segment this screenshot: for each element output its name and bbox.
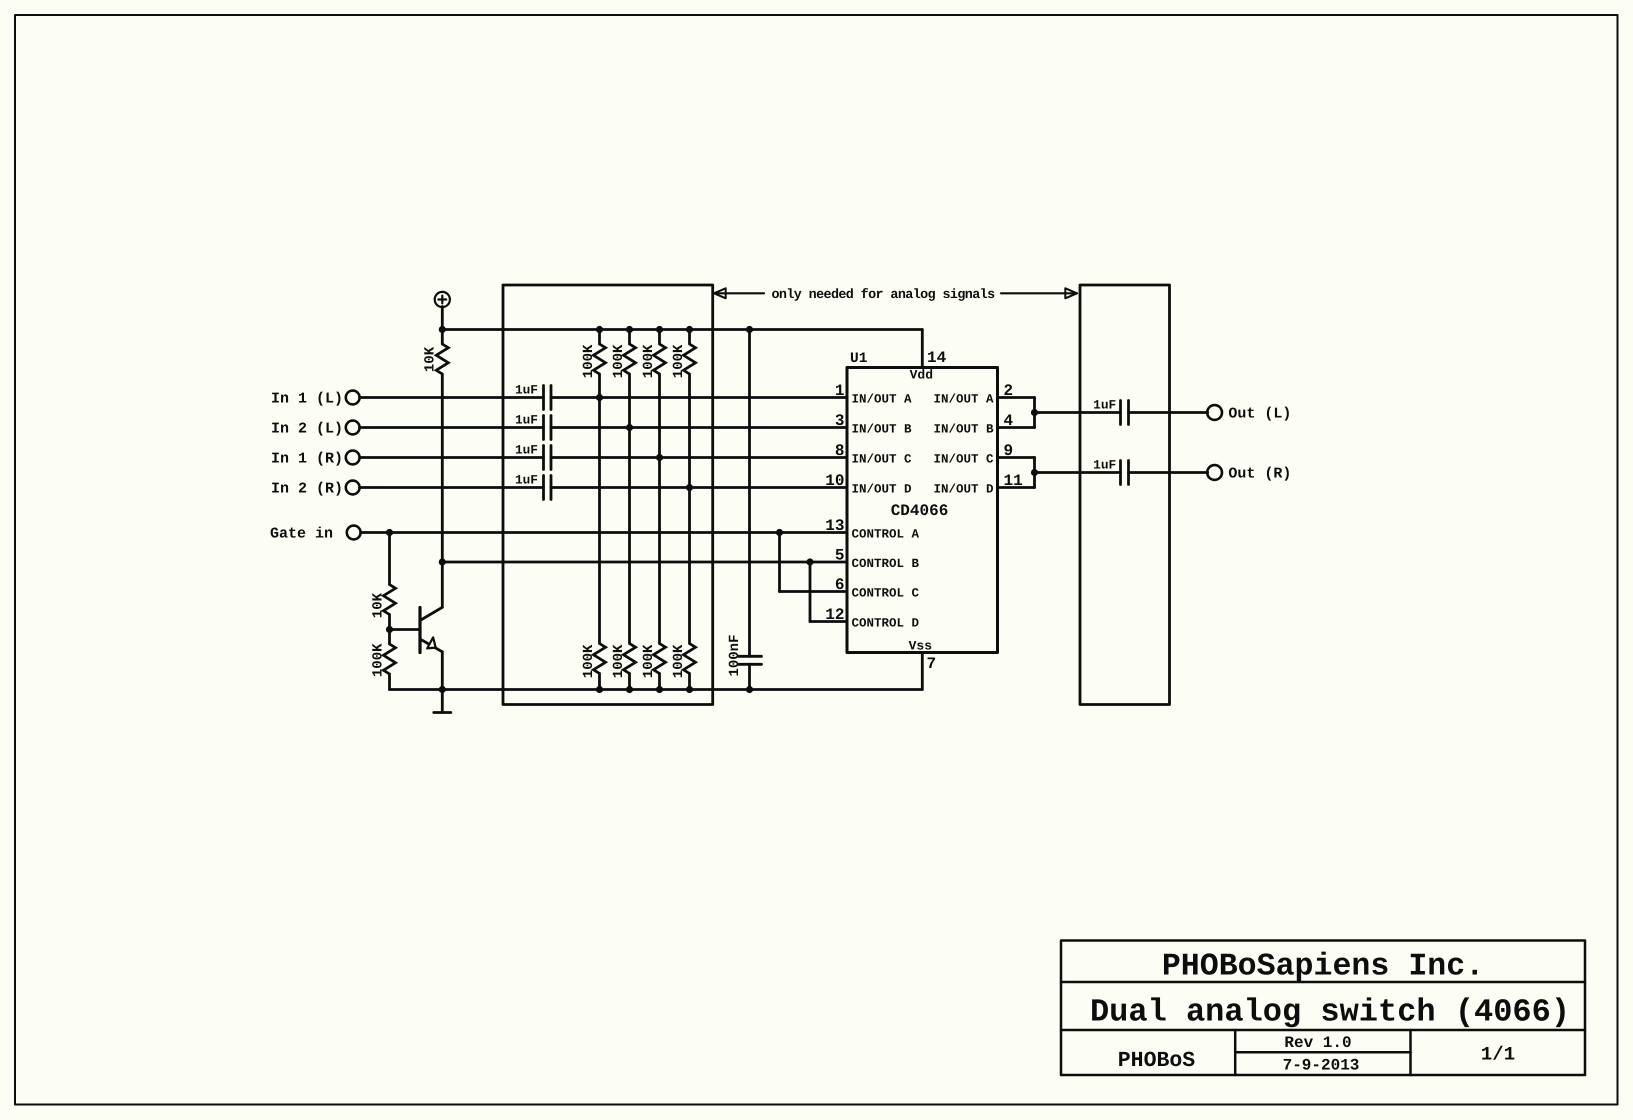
- svg-text:In 2 (L): In 2 (L): [271, 421, 343, 438]
- svg-text:IN/OUT C: IN/OUT C: [852, 452, 913, 466]
- svg-text:10: 10: [825, 472, 844, 490]
- svg-text:1: 1: [835, 382, 845, 400]
- svg-text:6: 6: [835, 576, 845, 594]
- svg-text:1uF: 1uF: [515, 472, 538, 487]
- svg-text:10K: 10K: [423, 346, 439, 372]
- svg-text:Dual analog switch (4066): Dual analog switch (4066): [1090, 994, 1570, 1031]
- svg-text:only needed for analog signals: only needed for analog signals: [771, 288, 995, 303]
- svg-text:100K: 100K: [611, 344, 627, 378]
- svg-text:1uF: 1uF: [1093, 458, 1116, 473]
- svg-text:100K: 100K: [641, 344, 657, 378]
- svg-text:IN/OUT B: IN/OUT B: [933, 422, 994, 436]
- svg-text:In 2 (R): In 2 (R): [271, 481, 343, 498]
- svg-text:IN/OUT D: IN/OUT D: [852, 482, 913, 496]
- svg-text:Out (R): Out (R): [1228, 466, 1291, 483]
- svg-text:1/1: 1/1: [1481, 1044, 1515, 1066]
- svg-text:PHOBoSapiens Inc.: PHOBoSapiens Inc.: [1162, 950, 1484, 985]
- svg-text:100K: 100K: [641, 644, 657, 678]
- svg-text:In 1 (R): In 1 (R): [271, 451, 343, 468]
- svg-text:7-9-2013: 7-9-2013: [1283, 1057, 1360, 1075]
- svg-text:Vss: Vss: [909, 638, 933, 653]
- svg-text:IN/OUT B: IN/OUT B: [852, 422, 913, 436]
- svg-text:100K: 100K: [581, 644, 597, 678]
- svg-text:Vdd: Vdd: [910, 368, 933, 383]
- svg-text:100K: 100K: [671, 644, 687, 678]
- svg-text:In 1 (L): In 1 (L): [271, 391, 343, 408]
- svg-text:IN/OUT D: IN/OUT D: [933, 482, 994, 496]
- svg-text:1uF: 1uF: [515, 382, 538, 397]
- svg-text:IN/OUT C: IN/OUT C: [933, 452, 994, 466]
- svg-text:100K: 100K: [581, 344, 597, 378]
- svg-text:12: 12: [825, 606, 844, 624]
- svg-text:100K: 100K: [611, 644, 627, 678]
- svg-text:7: 7: [927, 655, 937, 673]
- svg-text:5: 5: [835, 547, 845, 565]
- svg-text:U1: U1: [850, 351, 868, 367]
- svg-text:10K: 10K: [371, 592, 387, 618]
- svg-text:IN/OUT A: IN/OUT A: [852, 392, 913, 406]
- svg-text:1uF: 1uF: [515, 412, 538, 427]
- svg-text:14: 14: [927, 349, 947, 367]
- svg-text:CONTROL C: CONTROL C: [852, 586, 920, 600]
- svg-text:1uF: 1uF: [1093, 398, 1116, 413]
- svg-text:100nF: 100nF: [727, 634, 743, 676]
- svg-text:100K: 100K: [671, 344, 687, 378]
- svg-text:8: 8: [835, 442, 845, 460]
- svg-text:IN/OUT A: IN/OUT A: [933, 392, 994, 406]
- svg-text:1uF: 1uF: [515, 442, 538, 457]
- svg-text:Out (L): Out (L): [1228, 406, 1291, 423]
- svg-text:CD4066: CD4066: [891, 502, 949, 520]
- svg-text:CONTROL A: CONTROL A: [852, 527, 920, 541]
- svg-text:CONTROL D: CONTROL D: [852, 616, 920, 630]
- svg-text:CONTROL B: CONTROL B: [852, 557, 920, 571]
- svg-text:Gate in: Gate in: [270, 526, 333, 543]
- svg-text:13: 13: [825, 517, 844, 535]
- svg-text:3: 3: [835, 412, 845, 430]
- svg-text:Rev 1.0: Rev 1.0: [1284, 1034, 1351, 1052]
- svg-text:100K: 100K: [371, 643, 387, 677]
- svg-text:PHOBoS: PHOBoS: [1118, 1049, 1196, 1073]
